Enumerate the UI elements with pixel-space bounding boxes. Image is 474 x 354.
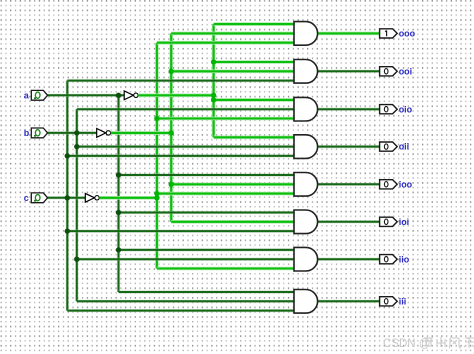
wire nb to ioo middle input (171, 183, 294, 187)
junction /a rail / ooi top (211, 59, 216, 64)
output pin ioo (380, 180, 398, 189)
wire ioo gate output (317, 183, 379, 186)
wire nc to iio bottom input (157, 267, 294, 271)
AND gate ioi (294, 210, 318, 234)
wire c rail vertical (66, 81, 69, 311)
junction c row / c rail (65, 195, 70, 200)
wire nb to ooi middle input (171, 70, 294, 74)
junction /c rail / inverter output (154, 195, 159, 200)
output pin oio (380, 105, 398, 114)
junction c rail / ioi bottom (65, 228, 70, 233)
input pin b (31, 128, 47, 138)
junction a rail / ioo top (116, 172, 121, 177)
wire oio gate output (317, 108, 379, 111)
wire ooi gate output (317, 70, 379, 73)
wire c to iii bottom input (67, 309, 294, 312)
wire b to iio middle input (77, 258, 294, 261)
wire nc to oio bottom input (157, 117, 294, 121)
wire input c to inverter (48, 196, 86, 199)
output pin ioi (380, 217, 398, 226)
wire nc to ioo bottom input (157, 192, 294, 196)
junction a row / a rail (116, 93, 121, 98)
wire b to oio middle input (77, 108, 294, 111)
inverter U1 (NOT a) (124, 91, 138, 100)
svg-text:ooi: ooi (399, 66, 413, 76)
junction /c rail / oio bottom (154, 116, 159, 121)
junction /b rail / ooi middle (169, 69, 174, 74)
wire oii gate output (317, 145, 379, 148)
wire ioi gate output (317, 220, 379, 223)
output pin iii (380, 297, 398, 306)
wire ooo gate output (317, 32, 379, 36)
junction a rail / ioi top (116, 210, 121, 215)
output pin ooi (380, 67, 398, 76)
svg-text:iii: iii (399, 296, 407, 306)
wire /a from inverter to rail (138, 94, 213, 98)
junction a rail / iio top (116, 247, 121, 252)
AND gate iii (294, 290, 318, 314)
junction b rail / iio middle (74, 257, 79, 262)
AND gate ooo (294, 22, 318, 46)
svg-text:iio: iio (399, 254, 410, 264)
watermark CSDN (383, 337, 474, 350)
wire /c rail vertical (155, 43, 159, 269)
output pin ooo (380, 29, 398, 38)
wire b to iii middle input (77, 300, 294, 303)
wire na to ooo top input (214, 22, 294, 26)
wire na to ooi top input (214, 60, 294, 64)
junction /a rail / oio top (211, 97, 216, 102)
output pin iio (380, 255, 398, 264)
wire input a to inverter (48, 94, 125, 97)
wire a to ioo top input (119, 173, 295, 176)
output pin oii (380, 142, 398, 151)
wire /a rail vertical (212, 24, 216, 137)
wire b to oii middle input (77, 145, 294, 148)
wire /b rail vertical (169, 33, 173, 221)
junction b row / b rail (74, 130, 79, 135)
svg-text:oii: oii (399, 142, 410, 152)
wire na to oii top input (214, 136, 294, 140)
wire nb to ooo middle input (171, 32, 294, 36)
junction c rail / oii bottom (65, 153, 70, 158)
input pin a (31, 90, 47, 100)
wire a rail vertical (117, 95, 120, 292)
wire input b to inverter (48, 131, 97, 134)
wire a to iio top input (119, 248, 295, 251)
input pin c (31, 193, 47, 203)
inverter U2 (NOT b) (97, 129, 111, 138)
AND gate ooi (294, 60, 318, 84)
junction /c rail / ioo bottom (154, 191, 159, 196)
AND gate ioo (294, 173, 318, 197)
AND gate iio (294, 247, 318, 271)
svg-text:ioi: ioi (399, 217, 410, 227)
svg-text:c: c (24, 193, 29, 203)
wire iio gate output (317, 258, 379, 261)
junction /b rail / ioo middle (169, 182, 174, 187)
svg-text:CSDN @: CSDN @ (383, 338, 430, 350)
junction /b rail / inverter output (169, 130, 174, 135)
svg-text:ooo: ooo (399, 29, 416, 39)
AND gate oio (294, 97, 318, 121)
AND gate oii (294, 135, 318, 159)
wire na to oio top input (214, 98, 294, 102)
wire c to ooi bottom input (67, 79, 294, 82)
svg-text:ioo: ioo (399, 179, 413, 189)
wire /c from inverter to rail (99, 196, 156, 200)
wire b rail vertical (75, 109, 78, 301)
wire nb to ioi middle input (171, 220, 294, 224)
junction /a rail / inverter output (211, 93, 216, 98)
wire iii gate output (317, 300, 379, 303)
wire c to ioi bottom input (67, 230, 294, 233)
wire c to oii bottom input (67, 154, 294, 157)
inverter U3 (NOT c) (85, 193, 99, 202)
wire nc to ooo bottom input (157, 41, 294, 45)
wire /b from inverter to rail (111, 131, 171, 135)
junction b rail / oii middle (74, 144, 79, 149)
svg-text:b: b (24, 128, 30, 138)
wire a to iii top input (119, 290, 295, 293)
svg-text:oio: oio (399, 104, 413, 114)
wire a to ioi top input (119, 211, 295, 214)
